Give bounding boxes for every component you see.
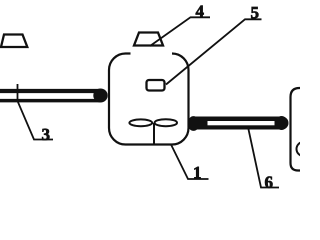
- svg-text:1: 1: [193, 163, 202, 182]
- svg-text:6: 6: [264, 173, 273, 192]
- svg-text:5: 5: [250, 3, 259, 22]
- svg-text:3: 3: [41, 125, 50, 144]
- svg-text:4: 4: [195, 2, 204, 21]
